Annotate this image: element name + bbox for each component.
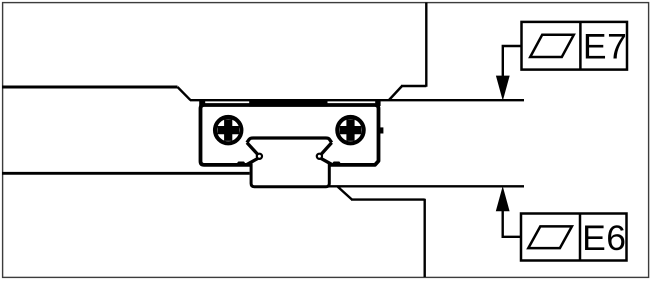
- block bottom-right lip bump: [332, 162, 341, 165]
- bed left shoulder chamfer: [178, 87, 191, 100]
- block bottom-left lip bump: [237, 162, 246, 165]
- rail right groove relief notch: [317, 154, 322, 159]
- bed lower ledge: [351, 198, 425, 200]
- carriage block outline: [201, 105, 379, 165]
- screw right (phillips head): [337, 117, 363, 143]
- bed right upper chamfer: [389, 86, 402, 100]
- block top-left corner fill: [199, 100, 205, 106]
- E6 leader line: [503, 211, 521, 237]
- E7 feature control frame: [522, 22, 628, 70]
- top seating surface line (E7 datum surface): [190, 99, 524, 101]
- rail head top surface: [247, 138, 332, 143]
- bed upper ledge: [401, 85, 426, 87]
- block right-edge boss: [378, 127, 384, 133]
- svg-text:E6: E6: [582, 218, 626, 258]
- screw left (phillips head): [215, 117, 241, 143]
- E7 leader line: [503, 46, 522, 76]
- flatness symbol: [528, 226, 572, 248]
- rail right flank lower diagonal: [321, 158, 333, 165]
- bed lower step chamfer: [338, 187, 353, 200]
- bed upper vertical edge: [425, 3, 427, 87]
- rail left flank lower diagonal: [246, 158, 258, 165]
- svg-text:E7: E7: [583, 26, 627, 66]
- rail stem: [251, 164, 329, 187]
- bed top-left surface line: [2, 86, 178, 89]
- rail left groove relief notch: [257, 154, 262, 159]
- E6 feature control frame: [521, 214, 627, 261]
- bed bottom-left surface line: [2, 172, 250, 175]
- flatness symbol: [530, 35, 574, 57]
- rail left flank upper diagonal: [247, 143, 258, 155]
- rail right flank upper diagonal: [321, 143, 332, 155]
- bottom seating surface line (E6 datum surface): [329, 185, 524, 187]
- E6 leader arrow: [496, 186, 510, 211]
- block top-right corner fill: [375, 100, 380, 106]
- bed lower vertical edge: [424, 199, 426, 277]
- block top slot cap band: [249, 99, 327, 106]
- E7 leader arrow: [496, 76, 510, 101]
